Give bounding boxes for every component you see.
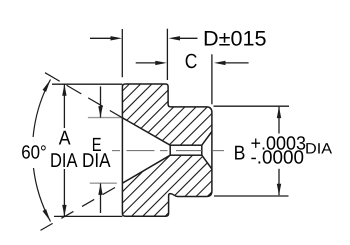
svg-text:C: C [185, 50, 198, 73]
svg-text:DIA: DIA [305, 141, 332, 158]
svg-text:B: B [234, 143, 246, 165]
svg-text:A: A [59, 128, 71, 150]
svg-text:DIA: DIA [50, 150, 78, 172]
svg-text:-.0000: -.0000 [251, 147, 305, 168]
svg-text:D±015: D±015 [203, 28, 267, 51]
svg-text:DIA: DIA [82, 150, 111, 172]
svg-text:60°: 60° [21, 143, 47, 164]
